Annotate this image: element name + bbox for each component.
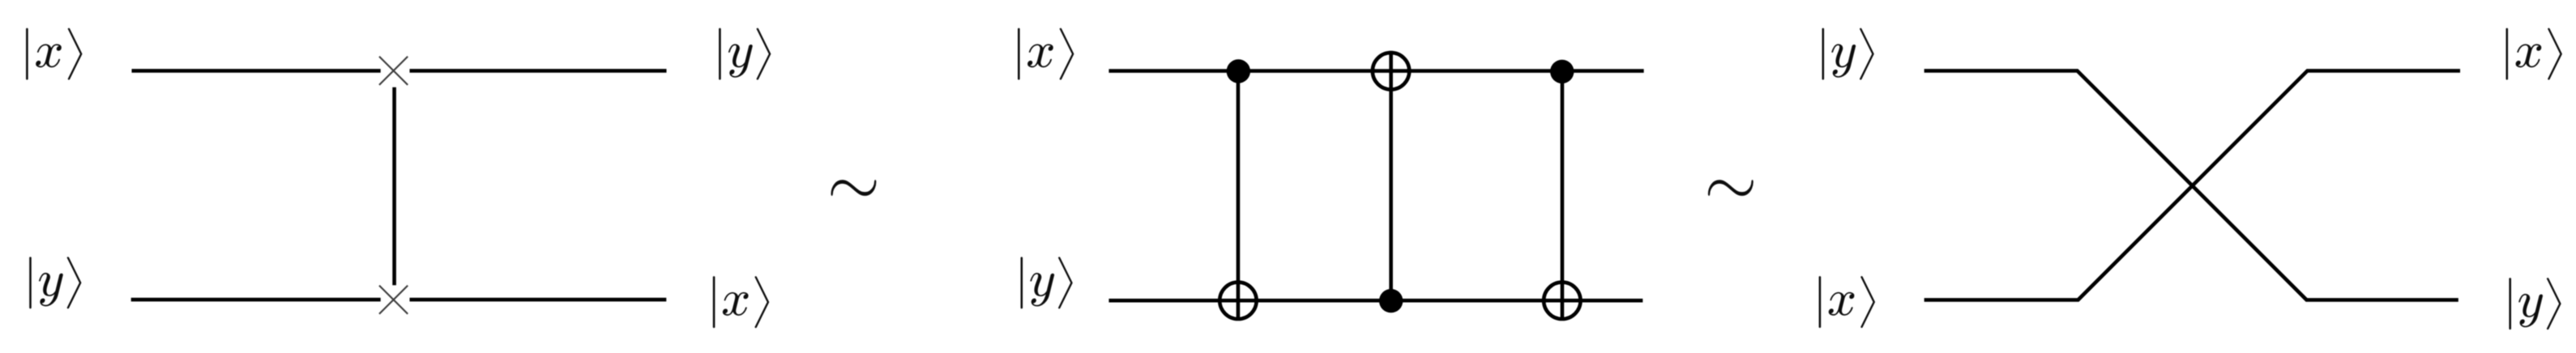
crossing wire from bottom-left to top-right [1925,70,2460,300]
SWAP gate cross on qubit 1 [379,57,408,85]
label ket-y output qubit 1 (left diagram) [719,28,771,80]
CNOT-1 vertical connector [1237,71,1241,321]
tilde equivalence symbol 1 [831,180,876,196]
crossing wire from top-left to bottom-right [1925,70,2459,300]
label ket-y input qubit 1 (right diagram) [1822,28,1873,80]
SWAP gate vertical connector [392,87,396,285]
wire qubit-2 left segment (left diagram) [131,298,381,302]
label ket-y input qubit 2 (middle diagram) [1020,257,1072,308]
label ket-x input qubit 1 (left diagram) [26,28,82,80]
CNOT-2 target oplus on qubit 1 [1373,53,1409,89]
wire qubit-1 (middle diagram) [1109,69,1643,73]
CNOT-2 vertical connector [1389,51,1393,300]
label ket-x output qubit 1 (right diagram) [2506,28,2561,80]
CNOT-1 target oplus on qubit 2 [1220,283,1256,319]
CNOT-3 control dot on qubit 1 [1550,60,1574,83]
label ket-x output qubit 2 (left diagram) [713,276,769,328]
CNOT-1 control dot on qubit 1 [1227,59,1250,83]
SWAP gate cross on qubit 2 [379,286,408,314]
wire qubit-2 right segment (left diagram) [410,298,667,302]
CNOT-2 control dot on qubit 2 [1379,289,1403,313]
tilde equivalence symbol 2 [1708,180,1754,196]
label ket-x input qubit 2 (right diagram) [1819,276,1875,328]
label ket-y output qubit 2 (right diagram) [2509,278,2561,330]
wire qubit-1 left segment (left diagram) [132,69,381,73]
CNOT-3 target oplus on qubit 2 [1544,283,1580,319]
CNOT-3 vertical connector [1561,71,1565,321]
label ket-x input qubit 1 (middle diagram) [1018,28,1074,80]
label ket-y input qubit 2 (left diagram) [29,257,81,308]
wire qubit-2 (middle diagram) [1109,299,1643,303]
wire qubit-1 right segment (left diagram) [410,69,667,73]
